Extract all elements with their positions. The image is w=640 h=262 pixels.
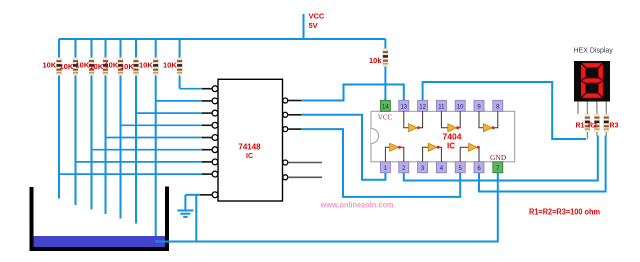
resistor 10K #5 [118, 58, 123, 76]
7404 notch [371, 129, 378, 144]
7404 pin boxes row top 14..8 [380, 100, 502, 111]
resistor 10K #8 [177, 58, 182, 76]
svg-text:12: 12 [419, 104, 426, 110]
resistor 10K #6 [134, 58, 139, 76]
inverter gate 9-8 wires [479, 111, 498, 127]
wire net2: column R7 probe + input1 [156, 39, 203, 238]
wire 74148 GS EO floating stubs [289, 163, 323, 178]
svg-text:10K: 10K [163, 61, 177, 70]
7404 pin numbers bottom [384, 166, 500, 172]
inverter gate C triangle [483, 124, 494, 132]
svg-text:11: 11 [438, 104, 445, 110]
labels R1 R2 R3 [576, 123, 619, 130]
wire VCC riser [303, 14, 305, 39]
wire net6: column R3 probe + input5 [92, 39, 203, 210]
wire EI to ground [185, 194, 200, 196]
resistor 10K #4 [103, 58, 108, 76]
label 74148 IC [238, 143, 261, 161]
inverter gate B triangle [448, 124, 459, 132]
svg-text:IC: IC [447, 142, 455, 151]
display leads [578, 102, 606, 140]
segment B [598, 64, 603, 80]
wire 7404 pin12 to R1 [423, 82, 586, 139]
svg-text:10K: 10K [43, 61, 57, 70]
resistor R2 [594, 114, 599, 132]
svg-text:10k: 10k [369, 56, 382, 65]
wire VCC to 7404 pin14 through 10k [384, 39, 386, 100]
pin bubbles 74148 inputs [212, 86, 218, 198]
resistor 10K #3 [89, 58, 94, 76]
svg-text:VCC: VCC [378, 114, 393, 122]
svg-text:IC: IC [246, 153, 253, 160]
7404 pin numbers top [382, 104, 500, 110]
node VCC 5V label [309, 12, 325, 30]
wire water to 7404 pin7 (ground net) [155, 173, 498, 242]
resistor R3 [604, 114, 609, 132]
svg-text:R2: R2 [588, 123, 597, 130]
inverter gate 5-6 wires [460, 147, 479, 162]
svg-text:14: 14 [382, 104, 389, 110]
wire 74148 output A1 to 7404 pin1 [289, 115, 386, 180]
wire net4: column R5 probe + input3 [121, 39, 203, 219]
IC U1 74148 body [218, 79, 283, 201]
wire input stubs (black) into 74148 [202, 89, 212, 174]
svg-text:www.onlinesoln.com: www.onlinesoln.com [320, 199, 394, 209]
resistor 10K #2 [73, 58, 78, 76]
inverter gate E triangle [428, 143, 439, 151]
inverter gate F triangle [469, 143, 480, 151]
wire VCC bus [59, 38, 386, 40]
wire net5: column R4 probe + input4 [106, 39, 203, 214]
svg-text:10: 10 [457, 104, 464, 110]
svg-text:10K: 10K [105, 61, 119, 70]
svg-text:GND: GND [490, 153, 507, 162]
wire 7404 pin2 to R2 [404, 136, 598, 181]
svg-text:VCC: VCC [309, 12, 325, 21]
inverter gate 1-2 wires [385, 147, 403, 162]
wire water exit segment [155, 241, 169, 243]
svg-text:10K: 10K [76, 61, 90, 70]
inverter gate 3-4 wires [423, 147, 442, 162]
svg-text:7404: 7404 [443, 132, 462, 142]
svg-text:10K: 10K [60, 62, 74, 71]
segment G [582, 78, 603, 83]
segment D [582, 93, 602, 98]
svg-text:R1: R1 [576, 123, 585, 130]
svg-text:10K: 10K [139, 61, 153, 70]
wire net3: column R6 probe + input2 [136, 39, 203, 224]
ground symbol [177, 195, 193, 217]
inverter gate A triangle [409, 124, 420, 132]
label 7404 IC [443, 132, 462, 151]
svg-text:10K: 10K [120, 62, 134, 71]
pin bubbles 74148 outputs [283, 98, 288, 180]
wire 7404 pin6 to R3 [479, 136, 606, 192]
svg-text:10K: 10K [90, 62, 104, 71]
labels 10K values [43, 61, 178, 72]
7404 pin boxes row bottom 1..7 [380, 162, 502, 173]
svg-text:R1=R2=R3=100 ohm: R1=R2=R3=100 ohm [529, 207, 600, 216]
segment C [598, 81, 603, 97]
svg-text:74148: 74148 [238, 143, 261, 152]
svg-text:R3: R3 [610, 123, 619, 130]
wire net1: column R8 to 74148 input0 [180, 39, 203, 89]
resistor 10K #7 [153, 58, 158, 76]
inverter gate 11-10 wires [441, 111, 460, 127]
water [34, 236, 166, 247]
seven-segment display body [574, 61, 610, 102]
inverter gate 13-12 wires [404, 111, 423, 127]
wire ground junction to water net [195, 195, 197, 242]
resistor R1 [585, 114, 590, 132]
segment F [581, 64, 586, 80]
segment A [582, 63, 602, 68]
resistor 10k pullup [383, 49, 388, 67]
segment E [581, 81, 586, 97]
inverter gate D triangle [390, 143, 401, 151]
resistor 10K #1 [57, 58, 62, 76]
svg-text:13: 13 [400, 104, 407, 110]
tank walls [30, 187, 170, 252]
IC U2 7404 body [371, 111, 515, 162]
wire 74148 output A0 to 7404 pin5 [289, 129, 461, 197]
svg-text:5V: 5V [309, 21, 318, 30]
wire net7: column R2 probe + input6 [76, 39, 203, 205]
wire net8: column R1 probe + input7 [59, 39, 203, 199]
wire 74148 output A2 to 7404 pin13 [289, 85, 404, 101]
svg-text:HEX Display: HEX Display [574, 48, 614, 55]
